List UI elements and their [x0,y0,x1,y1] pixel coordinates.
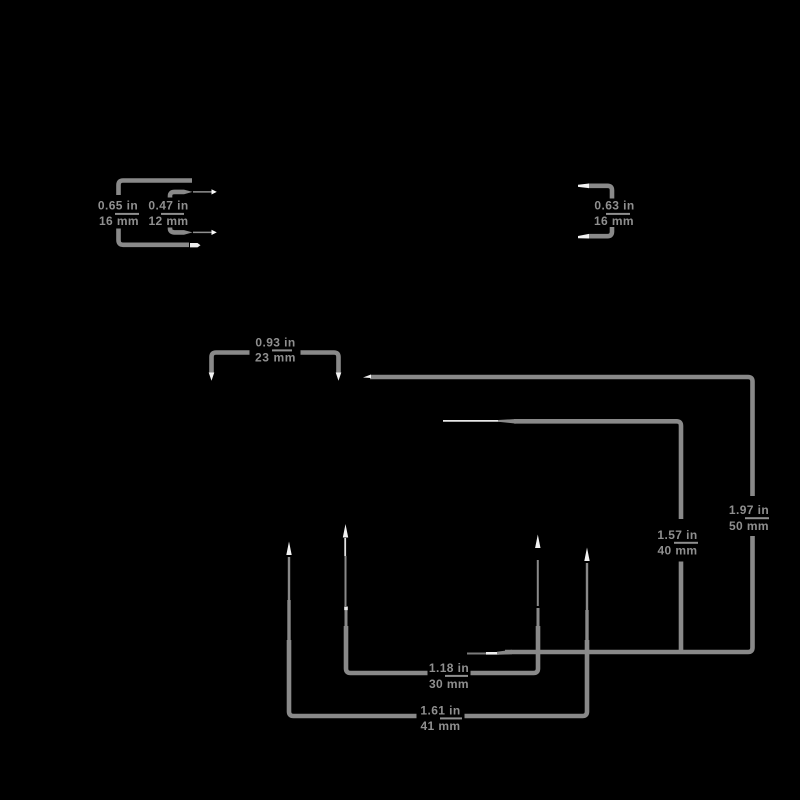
white down arrows M [209,373,215,381]
white up arrow B2 right [584,548,589,562]
svg-text:23 mm: 23 mm [255,350,296,364]
svg-text:1.61 in: 1.61 in [420,703,460,717]
dimension bracket R1 (top-right) [588,186,612,236]
label R1 text [594,199,635,228]
label R2 text [729,503,769,533]
vertical R3 lower part (to bottom return line) [679,562,684,653]
svg-text:0.93 in: 0.93 in [255,335,295,349]
long leader E (top edge to right height dim R2) [370,377,753,496]
label L1 text [98,199,139,228]
dimension bracket M (middle width) [212,353,339,373]
label L2 divider [161,213,184,215]
svg-text:1.97 in: 1.97 in [729,503,769,517]
arrow tip of L1 bottom line (white dash) [190,243,201,247]
white highlight on G taper [486,652,499,655]
label L2 text [148,199,188,228]
thin leader lines L2 [193,192,212,233]
label R2 divider [745,517,769,519]
white up arrow B1 right [535,535,540,549]
white up arrow B2 left [286,542,291,556]
label R3 text [657,528,697,558]
label B2 divider [440,717,462,719]
taper tips of L2 elbows [184,190,193,195]
white glint at B1 left leader joint [344,607,348,611]
outer bottom dimension B2 right arm [465,563,588,716]
label R1 divider [606,213,630,215]
dimension bracket L1 (top-left outer) [119,181,193,245]
label M divider [272,349,292,351]
dimension leader L2 upper elbow [170,192,184,233]
svg-text:50 mm: 50 mm [729,519,769,533]
svg-text:1.18 in: 1.18 in [429,661,469,675]
white dash tips R1 [578,184,589,189]
bottom return line G tapered end [467,653,490,655]
label R3 divider [674,542,698,544]
label M text [255,335,296,364]
svg-text:16 mm: 16 mm [594,214,634,228]
svg-text:0.63 in: 0.63 in [594,199,634,213]
svg-text:30 mm: 30 mm [429,677,469,691]
svg-text:0.65 in: 0.65 in [98,199,138,213]
svg-text:12 mm: 12 mm [148,214,188,228]
outer bottom dimension B2 left arm [289,557,417,716]
white arrowheads L2 [212,189,217,194]
inner bottom dimension B1 right arm [471,560,539,673]
long leader F (mid edge to height dim R3) [443,419,681,519]
svg-text:1.57 in: 1.57 in [657,528,697,542]
label B1 divider [445,675,468,677]
svg-text:16 mm: 16 mm [99,214,139,228]
svg-text:40 mm: 40 mm [657,544,697,558]
inner bottom dimension B1 left arm [346,556,428,673]
svg-text:41 mm: 41 mm [420,719,460,733]
right vertical R2 lower part + bottom return line G [505,536,753,652]
svg-text:0.47 in: 0.47 in [148,199,188,213]
white up arrow B1 left [343,524,348,538]
label L1 divider [115,213,139,215]
label B2 text [420,703,460,733]
white arrow tip E (points left) [363,375,371,379]
label B1 text [429,661,469,691]
